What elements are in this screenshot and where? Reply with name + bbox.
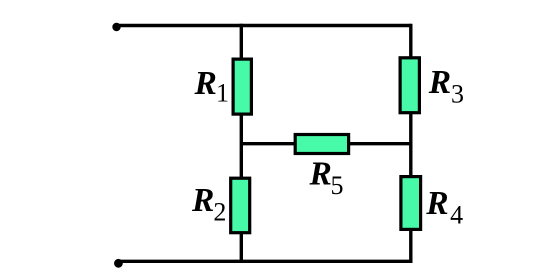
node terminal bottom-left	[114, 259, 123, 268]
svg-text:R4: R4	[425, 185, 463, 229]
resistor R1	[233, 59, 251, 114]
resistor R2	[231, 178, 250, 233]
wire middle bridge horizontal	[241, 142, 410, 145]
svg-text:R3: R3	[428, 64, 464, 108]
resistor R5	[295, 135, 348, 154]
svg-text:R5: R5	[309, 156, 344, 200]
svg-text:R1: R1	[194, 65, 230, 108]
node terminal top-left	[112, 23, 120, 31]
wire right branch vertical	[409, 24, 412, 263]
wire top horizontal	[117, 24, 411, 27]
wire left branch vertical	[240, 24, 243, 263]
svg-text:R2: R2	[191, 182, 226, 226]
resistor R4	[401, 177, 421, 230]
wire bottom horizontal	[118, 260, 410, 263]
resistor R3	[400, 58, 419, 113]
